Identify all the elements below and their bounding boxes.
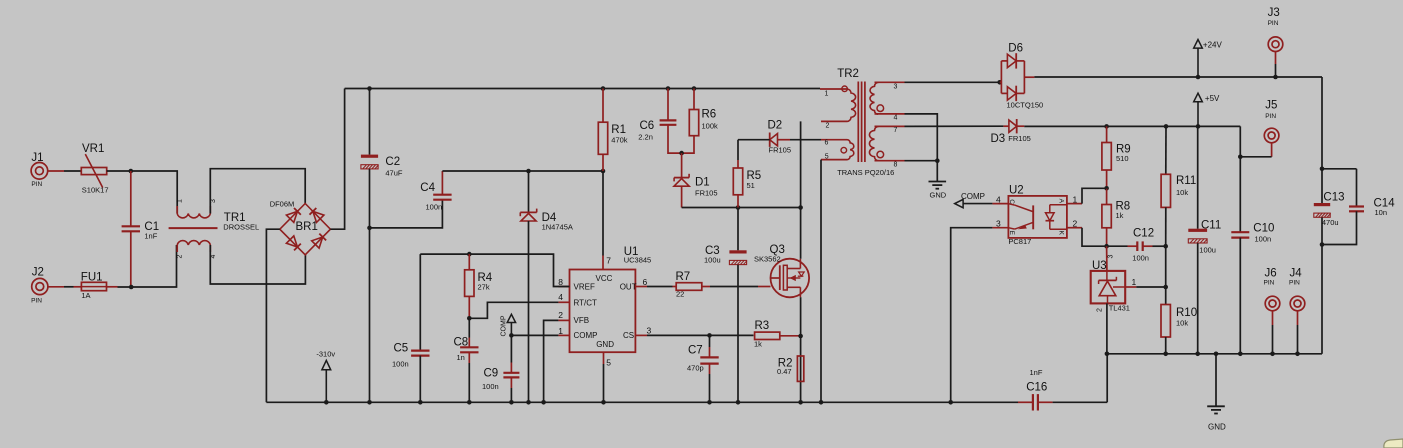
wire J5 to +5V bbox=[1271, 143, 1273, 157]
resistor R8 1k bbox=[1102, 205, 1111, 228]
wire +5V rail bbox=[1024, 125, 1240, 127]
capacitor C6 2.2n bbox=[667, 89, 669, 121]
svg-text:OUT: OUT bbox=[620, 283, 637, 292]
svg-text:51: 51 bbox=[747, 181, 755, 190]
svg-text:U3: U3 bbox=[1092, 260, 1107, 272]
junction bbox=[1105, 352, 1110, 357]
U2 pin 2 stub bbox=[1067, 227, 1082, 229]
net COMP arrow bbox=[510, 323, 512, 336]
U2 pin 1 stub bbox=[1067, 203, 1082, 205]
junction bbox=[1195, 352, 1200, 357]
svg-text:D3: D3 bbox=[991, 133, 1006, 145]
svg-text:J6: J6 bbox=[1265, 268, 1277, 280]
junction bbox=[418, 400, 423, 405]
svg-text:A: A bbox=[1057, 199, 1064, 204]
junction bbox=[467, 316, 472, 321]
svg-text:3: 3 bbox=[1108, 255, 1115, 259]
svg-text:C12: C12 bbox=[1133, 227, 1154, 239]
shunt regulator U3 TL431 bbox=[1106, 246, 1108, 271]
svg-text:FR105: FR105 bbox=[1008, 134, 1031, 143]
resistor R11 10k bbox=[1165, 126, 1167, 174]
svg-text:470p: 470p bbox=[687, 364, 704, 373]
svg-text:C8: C8 bbox=[454, 337, 469, 349]
svg-text:U2: U2 bbox=[1009, 185, 1024, 197]
svg-text:R6: R6 bbox=[702, 109, 717, 121]
U1 pin 5 GND stub bbox=[603, 352, 605, 364]
U1 pin 2 VFB stub bbox=[558, 319, 569, 321]
svg-text:J3: J3 bbox=[1268, 7, 1280, 19]
TR2 secondary winding pins 3-4 bbox=[875, 81, 905, 83]
net +24V power arrow bbox=[1194, 40, 1203, 49]
junction bbox=[129, 169, 134, 174]
capacitor C10 100n bbox=[1239, 126, 1241, 232]
junction bbox=[707, 333, 712, 338]
junction bbox=[736, 205, 741, 210]
diode D2 FR105 bbox=[737, 140, 739, 160]
svg-text:C5: C5 bbox=[394, 343, 409, 355]
op-amp U1 UC3845 PWM controller bbox=[570, 270, 636, 353]
capacitor C1 bbox=[130, 171, 132, 226]
U1 pin 3 CS stub bbox=[635, 334, 647, 336]
resistor R6 100k bbox=[693, 89, 695, 110]
capacitor C9 100n bbox=[510, 335, 512, 362]
fuse FU1 1A bbox=[74, 286, 82, 288]
svg-text:10n: 10n bbox=[1375, 208, 1388, 217]
svg-text:1n: 1n bbox=[457, 353, 465, 362]
resistor R9 510 bbox=[1106, 126, 1108, 142]
wire snubber D1/R5 to Q3 drain bbox=[682, 207, 801, 209]
BR1 diode lower-right bbox=[312, 237, 323, 248]
junction bbox=[601, 86, 606, 91]
svg-text:D2: D2 bbox=[768, 120, 783, 132]
connector J2 bbox=[32, 278, 48, 294]
svg-text:100u: 100u bbox=[1199, 246, 1216, 255]
junction bbox=[1320, 242, 1325, 247]
svg-text:PIN: PIN bbox=[31, 298, 42, 305]
junction bbox=[679, 151, 684, 156]
svg-text:R3: R3 bbox=[755, 320, 770, 332]
junction bbox=[129, 285, 134, 290]
junction bbox=[798, 205, 803, 210]
svg-text:47uF: 47uF bbox=[385, 169, 403, 178]
capacitor C12 100n bbox=[1107, 245, 1128, 247]
svg-text:C13: C13 bbox=[1323, 192, 1344, 204]
capacitor C5 100n bbox=[419, 254, 421, 351]
junction bbox=[467, 252, 472, 257]
junction bbox=[509, 333, 514, 338]
junction bbox=[819, 400, 824, 405]
junction bbox=[1238, 352, 1243, 357]
U1 pin 7 VCC stub bbox=[602, 256, 604, 270]
junction bbox=[798, 334, 803, 339]
svg-text:CS: CS bbox=[623, 331, 634, 340]
svg-text:R10: R10 bbox=[1176, 307, 1197, 319]
svg-text:SK3562: SK3562 bbox=[754, 255, 781, 264]
junction bbox=[1104, 124, 1109, 129]
svg-text:4: 4 bbox=[894, 115, 898, 122]
junction bbox=[948, 400, 953, 405]
wire secondary ground bus bbox=[1107, 353, 1322, 355]
wire -310v bottom bus bbox=[266, 401, 1018, 403]
BR1 diode lower-left bbox=[286, 236, 297, 247]
svg-text:2.2n: 2.2n bbox=[638, 133, 653, 142]
diode D3 FR105 bbox=[905, 125, 1004, 127]
U3 pin 1 stub bbox=[1125, 286, 1136, 288]
junction bbox=[1214, 352, 1219, 357]
svg-text:J4: J4 bbox=[1290, 268, 1303, 280]
svg-text:VR1: VR1 bbox=[82, 143, 104, 155]
varistor VR1 bbox=[81, 168, 106, 175]
resistor R3 1k bbox=[755, 332, 780, 339]
svg-text:C6: C6 bbox=[640, 120, 655, 132]
svg-text:4: 4 bbox=[996, 195, 1001, 205]
svg-text:100n: 100n bbox=[1132, 254, 1149, 263]
resistor R2 0.47 bbox=[797, 356, 803, 381]
net COMP arrow at U2 bbox=[955, 199, 963, 207]
junction bbox=[707, 400, 712, 405]
wire BR1 plus to top bus bbox=[330, 89, 344, 230]
svg-text:100n: 100n bbox=[482, 382, 499, 391]
svg-text:GND: GND bbox=[1208, 423, 1226, 432]
wire J3 to +24V bbox=[1275, 52, 1277, 65]
svg-text:PIN: PIN bbox=[1265, 113, 1276, 120]
svg-text:1: 1 bbox=[177, 199, 184, 203]
svg-text:D1: D1 bbox=[695, 176, 710, 188]
junction bbox=[367, 86, 372, 91]
svg-text:C7: C7 bbox=[688, 345, 703, 357]
capacitor C14 10n bbox=[1356, 169, 1358, 207]
svg-text:R11: R11 bbox=[1176, 175, 1196, 187]
svg-text:1: 1 bbox=[1132, 277, 1137, 287]
svg-text:510: 510 bbox=[1116, 154, 1129, 163]
wire U3 pin 2 down bbox=[1106, 303, 1108, 353]
wire U2 pin 3 to ground bus bbox=[951, 228, 993, 403]
wire J1 to VR1 bbox=[48, 170, 64, 172]
connector J4 bbox=[1290, 296, 1305, 311]
ground symbol GND bbox=[929, 181, 947, 183]
junction bbox=[1104, 186, 1109, 191]
wire Q3 drain to TR2 pin 2 bbox=[800, 121, 802, 258]
svg-text:FR105: FR105 bbox=[769, 146, 792, 155]
svg-text:S10K17: S10K17 bbox=[82, 186, 109, 195]
svg-text:100n: 100n bbox=[426, 202, 443, 211]
wire TR2 pin 3 to D6 bbox=[905, 81, 1000, 83]
svg-text:27k: 27k bbox=[478, 283, 490, 292]
svg-text:DF06M: DF06M bbox=[270, 200, 295, 209]
U2 pin 3 stub bbox=[992, 227, 1008, 229]
wire C16 to secondary ground bbox=[1106, 354, 1108, 403]
svg-text:470u: 470u bbox=[1322, 218, 1339, 227]
svg-text:6: 6 bbox=[825, 139, 829, 146]
junction bbox=[1295, 352, 1300, 357]
resistor R10 10k bbox=[1165, 287, 1167, 305]
svg-text:PIN: PIN bbox=[1289, 279, 1300, 286]
junction bbox=[526, 169, 531, 174]
wire TR1 pin 4 to BR1 bottom bbox=[210, 245, 305, 284]
svg-text:PIN: PIN bbox=[1268, 20, 1279, 27]
U1 pin 1 COMP stub bbox=[558, 334, 569, 336]
dual diode D6 10CTQ150 bbox=[997, 80, 1002, 85]
wire TR2 pin 8 to GND bbox=[905, 160, 938, 162]
resistor R5 51 bbox=[737, 160, 739, 168]
wire C13 to secondary ground bus bbox=[1321, 245, 1323, 354]
wire U3 pin 1 to divider bbox=[1136, 286, 1165, 288]
svg-text:2: 2 bbox=[558, 310, 563, 320]
svg-text:C9: C9 bbox=[484, 368, 499, 380]
junction bbox=[666, 86, 671, 91]
junction bbox=[601, 400, 606, 405]
TR2 bias winding pins 6-5 bbox=[821, 139, 847, 141]
ground symbol GND secondary bbox=[1215, 354, 1217, 407]
optocoupler U2 PC817 bbox=[1008, 196, 1067, 238]
junction bbox=[935, 158, 940, 163]
svg-text:K: K bbox=[1057, 231, 1064, 236]
svg-text:10k: 10k bbox=[1176, 188, 1188, 197]
svg-text:22: 22 bbox=[676, 290, 684, 299]
svg-text:GND: GND bbox=[930, 191, 947, 200]
TR2 core bbox=[857, 82, 859, 163]
svg-text:+5V: +5V bbox=[1205, 94, 1220, 103]
svg-text:R1: R1 bbox=[611, 124, 626, 136]
svg-text:J1: J1 bbox=[31, 152, 43, 164]
svg-text:E: E bbox=[1008, 231, 1015, 236]
svg-text:100k: 100k bbox=[702, 122, 719, 131]
svg-text:C10: C10 bbox=[1253, 223, 1274, 235]
wire VR1 to node, to TR1 pin 1 bbox=[107, 170, 131, 172]
capacitor C2 47uF bbox=[369, 89, 371, 155]
wire C2 node to C4 bbox=[370, 200, 443, 228]
svg-text:7: 7 bbox=[894, 127, 898, 134]
svg-text:1: 1 bbox=[1073, 195, 1078, 205]
svg-text:PC817: PC817 bbox=[1008, 237, 1031, 246]
connector J5 bbox=[1264, 128, 1279, 143]
junction bbox=[509, 400, 514, 405]
svg-text:3: 3 bbox=[647, 326, 652, 336]
wire U2 pin 1 to R9/R8 node bbox=[1082, 188, 1107, 203]
BR1 diode upper-right bbox=[313, 211, 324, 222]
svg-text:7: 7 bbox=[606, 256, 611, 266]
wire CS line bbox=[647, 334, 710, 336]
U1 pin 6 OUT stub bbox=[635, 286, 647, 288]
svg-text:470k: 470k bbox=[611, 135, 628, 144]
svg-text:1: 1 bbox=[825, 90, 829, 97]
capacitor C4 100n bbox=[433, 194, 451, 196]
svg-text:1A: 1A bbox=[81, 291, 90, 300]
junction bbox=[692, 86, 697, 91]
junction bbox=[1270, 352, 1275, 357]
BR1 diode upper-left bbox=[286, 211, 297, 222]
svg-text:DROSSEL: DROSSEL bbox=[223, 223, 259, 232]
svg-text:VFB: VFB bbox=[574, 316, 590, 325]
capacitor C3 100u bbox=[737, 208, 739, 251]
svg-text:C16: C16 bbox=[1026, 382, 1047, 394]
junction bbox=[1104, 244, 1109, 249]
svg-text:J2: J2 bbox=[32, 267, 44, 279]
wire TR2 pin 4 to GND bbox=[905, 114, 938, 182]
net +5V power arrow bbox=[1194, 93, 1203, 102]
svg-text:1nF: 1nF bbox=[1030, 368, 1043, 377]
wire VCC rail C4/D4/R1 bbox=[442, 170, 603, 172]
svg-text:3: 3 bbox=[894, 83, 898, 90]
svg-text:3: 3 bbox=[996, 219, 1001, 229]
junction bbox=[1163, 285, 1168, 290]
resistor R7 22 gate resistor bbox=[647, 286, 673, 288]
zener diode D1 FR105 bbox=[681, 153, 683, 178]
svg-text:2: 2 bbox=[826, 123, 830, 130]
svg-text:5: 5 bbox=[606, 358, 611, 368]
svg-text:C4: C4 bbox=[420, 182, 435, 194]
junction bbox=[1164, 124, 1169, 129]
junction bbox=[736, 400, 741, 405]
junction bbox=[1273, 75, 1278, 80]
junction bbox=[324, 400, 329, 405]
U1 pin 4 RT/CT stub bbox=[558, 301, 569, 303]
svg-text:-310v: -310v bbox=[316, 349, 335, 358]
svg-text:TRANS PQ20/16: TRANS PQ20/16 bbox=[837, 168, 894, 177]
wire +24V rail bbox=[1034, 76, 1322, 78]
svg-text:8: 8 bbox=[894, 161, 898, 168]
svg-text:1k: 1k bbox=[754, 340, 762, 349]
svg-text:D6: D6 bbox=[1008, 43, 1023, 55]
capacitor C8 1n bbox=[468, 318, 470, 337]
wire RT/CT bbox=[469, 302, 558, 318]
svg-text:6: 6 bbox=[643, 277, 648, 287]
capacitor C13 470u bbox=[1321, 169, 1323, 203]
junction bbox=[1163, 244, 1168, 249]
junction bbox=[367, 400, 372, 405]
common-mode choke TR1 DROSSEL bbox=[177, 214, 210, 218]
svg-text:8: 8 bbox=[558, 277, 563, 287]
svg-text:COMP: COMP bbox=[500, 315, 507, 336]
wire Q3 source down bbox=[800, 297, 802, 402]
svg-text:100u: 100u bbox=[704, 256, 721, 265]
wire J6 to bus bbox=[1272, 311, 1274, 325]
svg-text:+24V: +24V bbox=[1203, 40, 1223, 49]
svg-text:COMP: COMP bbox=[574, 331, 598, 340]
wire U1 GND to bus bbox=[603, 364, 605, 402]
capacitor C7 470p bbox=[709, 335, 711, 347]
svg-text:COMP: COMP bbox=[961, 192, 985, 201]
junction bbox=[601, 169, 606, 174]
svg-text:1N4745A: 1N4745A bbox=[542, 222, 573, 231]
wire TR2 pin 5 to ground bus bbox=[820, 160, 822, 403]
junction bbox=[798, 400, 803, 405]
svg-text:VCC: VCC bbox=[596, 274, 613, 283]
U1 pin 8 VREF stub bbox=[558, 286, 569, 288]
capacitor C16 1nF Y-cap bbox=[1018, 401, 1033, 403]
wire J2 to FU1 bbox=[48, 286, 64, 288]
svg-text:RT/CT: RT/CT bbox=[574, 298, 598, 307]
svg-text:PIN: PIN bbox=[31, 181, 42, 188]
svg-text:UC3845: UC3845 bbox=[624, 256, 652, 265]
watermark corner bbox=[1384, 439, 1403, 448]
svg-text:1nF: 1nF bbox=[144, 232, 157, 241]
resistor R1 470k bbox=[602, 89, 604, 123]
svg-text:2: 2 bbox=[177, 255, 184, 259]
svg-text:1k: 1k bbox=[1116, 211, 1124, 220]
capacitor C11 100u bbox=[1197, 126, 1199, 228]
wire top bus +310 bbox=[345, 88, 820, 90]
wire TR1 pin 3 to BR1 top bbox=[210, 169, 305, 214]
svg-text:VREF: VREF bbox=[574, 283, 595, 292]
junction bbox=[1320, 167, 1325, 172]
junction bbox=[1163, 352, 1168, 357]
connector J3 bbox=[1268, 37, 1283, 52]
junction bbox=[526, 400, 531, 405]
TR2 primary winding pins 1-2 bbox=[820, 88, 847, 90]
junction bbox=[1238, 155, 1243, 160]
TR2 secondary winding pins 7-8 bbox=[875, 125, 905, 127]
svg-text:100n: 100n bbox=[392, 360, 409, 369]
zener diode D4 1N4745A bbox=[528, 171, 530, 212]
svg-text:FR105: FR105 bbox=[695, 188, 718, 197]
svg-text:GND: GND bbox=[596, 340, 614, 349]
wire +24V to C13/C14 bbox=[1322, 77, 1357, 169]
svg-text:0.47: 0.47 bbox=[777, 367, 792, 376]
wire R11 to R10 bbox=[1165, 246, 1167, 287]
svg-text:BR1: BR1 bbox=[296, 221, 318, 233]
svg-text:2: 2 bbox=[1073, 219, 1078, 229]
wire VREF line bbox=[420, 254, 569, 286]
wire J4 to bus bbox=[1297, 311, 1299, 325]
net -310v power arrow bbox=[322, 360, 331, 369]
svg-text:10k: 10k bbox=[1176, 319, 1188, 328]
svg-text:C: C bbox=[1008, 199, 1015, 204]
svg-text:1: 1 bbox=[558, 326, 563, 336]
wire U2 pin 2 to R8/C12 node bbox=[1082, 228, 1107, 247]
junction bbox=[367, 226, 372, 231]
connector J1 bbox=[31, 163, 48, 180]
junction bbox=[467, 400, 472, 405]
wire VFB to ground bbox=[544, 320, 559, 402]
svg-text:FU1: FU1 bbox=[81, 272, 103, 284]
svg-text:TL431: TL431 bbox=[1109, 304, 1130, 313]
svg-text:2: 2 bbox=[1097, 308, 1104, 312]
resistor R4 27k bbox=[468, 254, 470, 270]
wire BR1 minus to -310v bus bbox=[266, 229, 279, 402]
svg-text:100n: 100n bbox=[1255, 235, 1272, 244]
svg-text:J5: J5 bbox=[1265, 100, 1277, 112]
svg-text:C2: C2 bbox=[385, 156, 400, 168]
wire R1 to U1 VCC pin 7 bbox=[602, 171, 604, 256]
svg-text:10CTQ150: 10CTQ150 bbox=[1007, 101, 1044, 110]
svg-text:C11: C11 bbox=[1201, 220, 1221, 232]
transistor Q3 SK3562 MOSFET bbox=[771, 259, 810, 298]
junction bbox=[1196, 124, 1201, 129]
svg-text:PIN: PIN bbox=[1264, 279, 1275, 286]
connector J6 bbox=[1265, 296, 1280, 311]
bridge rectifier BR1 DF06M bbox=[280, 204, 331, 255]
junction bbox=[1196, 75, 1201, 80]
svg-text:5: 5 bbox=[825, 153, 829, 160]
U2 pin 4 stub bbox=[992, 203, 1008, 205]
svg-text:R7: R7 bbox=[676, 271, 691, 283]
junction bbox=[541, 400, 546, 405]
wire COMP net bbox=[511, 334, 558, 336]
svg-text:4: 4 bbox=[558, 292, 563, 302]
svg-text:TR2: TR2 bbox=[837, 68, 859, 80]
wire FU1 to TR1 pin 2 bbox=[118, 245, 177, 287]
